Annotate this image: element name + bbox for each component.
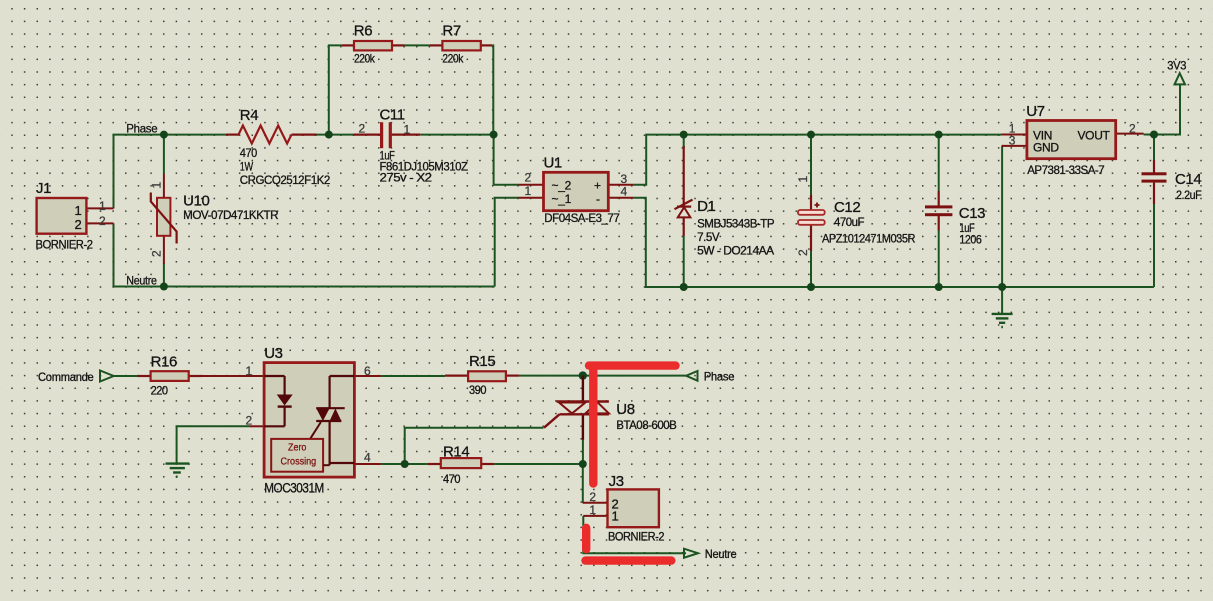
wire U7 GND down [1001, 146, 1003, 314]
node junction R14-J3 [579, 460, 587, 468]
svg-text:~_1: ~_1 [552, 192, 572, 206]
svg-text:1: 1 [404, 122, 411, 136]
optocoupler U3 MOC3031M [240, 345, 381, 495]
node junction Neutre-U10 [160, 283, 168, 291]
thick red wire Phase horizontal [589, 361, 676, 369]
svg-text:3: 3 [1009, 134, 1016, 148]
svg-text:APZ1012471M035R: APZ1012471M035R [822, 232, 916, 246]
svg-text:MOC3031M: MOC3031M [264, 481, 324, 496]
svg-text:R7: R7 [442, 23, 460, 40]
svg-text:220k: 220k [442, 52, 464, 66]
svg-text:VOUT: VOUT [1077, 129, 1110, 143]
svg-text:2: 2 [359, 121, 366, 135]
svg-text:U7: U7 [1026, 103, 1044, 120]
wire C14 top [1153, 135, 1155, 161]
node junction C12 top [807, 131, 815, 139]
ground near U7 [992, 314, 1013, 327]
svg-text:1: 1 [589, 503, 596, 517]
wire J1 pin2 to Neutre [113, 223, 115, 286]
svg-text:6: 6 [364, 364, 371, 378]
connector J1 BORNIER-2 [36, 180, 114, 252]
resistor R7 [430, 23, 492, 66]
wire junction to Phase terminal [583, 375, 686, 377]
output terminal Neutre [684, 547, 737, 561]
wire C13 top [938, 135, 940, 191]
svg-text:1: 1 [246, 364, 253, 378]
wire C11 right to junction [420, 134, 493, 136]
wire U10 bottom [163, 264, 165, 287]
zener diode D1 SMBJ5343B-TP [675, 146, 775, 258]
wire R4 right to C11 [317, 134, 354, 136]
svg-text:390: 390 [469, 383, 487, 397]
triac U8 BTA08-600B [544, 376, 677, 440]
svg-text:R16: R16 [151, 354, 177, 371]
wire C13 bottom [938, 231, 940, 288]
svg-text:DF04SA-E3_77: DF04SA-E3_77 [544, 211, 620, 225]
svg-text:R14: R14 [443, 444, 469, 461]
svg-text:1: 1 [796, 176, 810, 183]
svg-text:Phase: Phase [704, 370, 735, 384]
node junction R6 vertical [325, 131, 333, 139]
wire U3 pin6 to R15 [381, 375, 445, 377]
wire U3 pin2 to ground [177, 426, 250, 463]
thick red wire small vertical at J3 [582, 528, 590, 549]
svg-text:2.2uF: 2.2uF [1176, 188, 1201, 202]
wire U1 pin4 to DC- rail [633, 198, 1154, 287]
svg-text:MOV-07D471KKTR: MOV-07D471KKTR [183, 208, 279, 222]
svg-text:275v - X2: 275v - X2 [380, 171, 433, 185]
svg-text:2: 2 [1129, 122, 1136, 136]
wire D1 top [683, 135, 685, 148]
svg-text:C13: C13 [959, 205, 985, 222]
svg-text:U8: U8 [616, 401, 634, 418]
resistor R15 [445, 353, 519, 397]
node junction C11-R7 [490, 131, 498, 139]
wire Neutre rail [114, 286, 495, 288]
svg-text:Zero: Zero [288, 442, 307, 454]
wire R16 to U3 pin1 (pin segment) [202, 375, 241, 377]
svg-text:U3: U3 [264, 345, 282, 362]
svg-text:220: 220 [151, 384, 169, 398]
svg-text:U10: U10 [183, 193, 209, 210]
wire D1 bottom [683, 236, 685, 287]
svg-text:C12: C12 [834, 199, 860, 216]
node junction Phase bottom [579, 371, 587, 379]
svg-text:BORNIER-2: BORNIER-2 [36, 238, 94, 252]
svg-text:J1: J1 [36, 180, 51, 197]
svg-text:R6: R6 [354, 23, 372, 40]
capacitor C11 [354, 107, 468, 185]
wire C14 bottom [1153, 204, 1155, 287]
svg-text:BTA08-600B: BTA08-600B [616, 418, 676, 432]
svg-text:CRGCQ2512F1K2: CRGCQ2512F1K2 [240, 173, 331, 187]
wire Phase rail top-left [114, 135, 227, 209]
svg-text:4: 4 [621, 185, 628, 199]
resistor R16 [138, 354, 202, 398]
svg-text:2: 2 [99, 214, 106, 228]
capacitor C12 electrolytic [796, 176, 916, 257]
wire U3 pin4 to R14 [381, 463, 428, 465]
svg-text:5W - DO214AA: 5W - DO214AA [697, 244, 774, 258]
svg-text:7.5V: 7.5V [697, 230, 719, 244]
power terminal 3V3 [1167, 59, 1187, 85]
node junction D1 bottom [680, 283, 688, 291]
svg-text:AP7381-33SA-7: AP7381-33SA-7 [1027, 163, 1105, 177]
node junction C13 bottom [935, 283, 943, 291]
svg-text:U1: U1 [544, 155, 562, 172]
node junction Phase-U10 [160, 131, 168, 139]
svg-text:1: 1 [612, 509, 619, 524]
node junction gate-R14 [401, 460, 409, 468]
resistor R4 [226, 107, 331, 187]
svg-text:BORNIER-2: BORNIER-2 [608, 530, 665, 544]
svg-text:1W: 1W [240, 160, 254, 174]
svg-text:Commande: Commande [38, 370, 94, 384]
svg-text:2: 2 [150, 250, 164, 257]
svg-text:1: 1 [99, 199, 106, 213]
wire VOUT to 3V3 [1144, 85, 1180, 135]
svg-text:Phase: Phase [126, 122, 158, 136]
thick red wire Neutre horizontal [586, 556, 672, 564]
wire Commande to R16 [114, 375, 138, 377]
wire R14 to junction [494, 463, 583, 465]
svg-text:1: 1 [525, 184, 532, 198]
wire U1 pin1 to Neutre rail [495, 198, 519, 287]
svg-text:-: - [596, 192, 600, 206]
resistor R6 [342, 23, 405, 66]
node junction C12 bottom [807, 283, 815, 291]
wire U10 top [163, 135, 165, 174]
svg-text:470: 470 [240, 146, 258, 160]
bridge rectifier U1 DF04SA-E3_77 [519, 155, 634, 226]
svg-text:1206: 1206 [959, 233, 982, 247]
wire R15 to Phase junction [519, 375, 583, 377]
varistor U10 MOV-07D471KKTR [150, 174, 279, 264]
svg-text:~_2: ~_2 [552, 179, 572, 193]
svg-text:220k: 220k [354, 52, 376, 66]
LED inside U3 [264, 376, 292, 426]
svg-text:+: + [594, 179, 601, 193]
svg-text:R4: R4 [240, 107, 258, 124]
svg-text:470uF: 470uF [834, 215, 864, 229]
wire R7 to right corner down [492, 45, 493, 134]
ground near U3 [166, 464, 190, 477]
capacitor C14 [1142, 160, 1202, 204]
svg-text:3V3: 3V3 [1167, 59, 1187, 73]
input terminal Commande [38, 370, 114, 384]
svg-text:2: 2 [75, 217, 82, 232]
svg-text:4: 4 [364, 450, 371, 464]
wire C12 top [810, 135, 812, 195]
svg-text:J3: J3 [609, 473, 624, 490]
wire U8 MT1 down to junction [582, 440, 584, 464]
node junction GND rail [998, 283, 1006, 291]
svg-text:C14: C14 [1175, 171, 1201, 188]
svg-text:2: 2 [525, 171, 532, 185]
svg-text:Crossing: Crossing [281, 456, 317, 468]
svg-text:1: 1 [150, 182, 164, 189]
wire J3 pin1 to Neutre terminal [583, 516, 686, 553]
node junction C13 top [935, 131, 943, 139]
svg-text:SMBJ5343B-TP: SMBJ5343B-TP [697, 217, 774, 231]
svg-text:2: 2 [246, 414, 253, 428]
zero crossing box inside U3 [271, 439, 329, 472]
svg-text:470: 470 [443, 472, 461, 486]
svg-text:Neutre: Neutre [126, 274, 157, 288]
output terminal Phase [686, 370, 735, 384]
svg-text:R15: R15 [469, 353, 495, 370]
regulator U7 AP7381-33SA-7 [1001, 103, 1144, 177]
resistor R14 [428, 444, 494, 487]
svg-text:GND: GND [1033, 141, 1059, 155]
wire junction down to J3 pin2 [582, 464, 584, 503]
svg-text:Neutre: Neutre [705, 547, 737, 561]
svg-text:D1: D1 [697, 198, 715, 215]
photo-triac inside U3 [310, 376, 354, 465]
capacitor C13 [925, 191, 985, 247]
wire junction to U1 pin2 [494, 135, 519, 185]
wire R6 R7 top loop [329, 45, 342, 134]
node junction VOUT [1150, 131, 1158, 139]
wire gate loop [405, 428, 544, 464]
wire R6-R7 middle [405, 44, 431, 46]
svg-text:C11: C11 [380, 107, 405, 124]
svg-text:1: 1 [75, 203, 82, 218]
wire C12 bottom [810, 251, 812, 287]
connector J3 BORNIER-2 [583, 473, 665, 544]
node junction D1 top [680, 131, 688, 139]
svg-text:2: 2 [796, 249, 810, 256]
wire U1 pin3 to DC+ rail [633, 135, 1001, 185]
thick red wire vertical through U8 [589, 366, 597, 484]
